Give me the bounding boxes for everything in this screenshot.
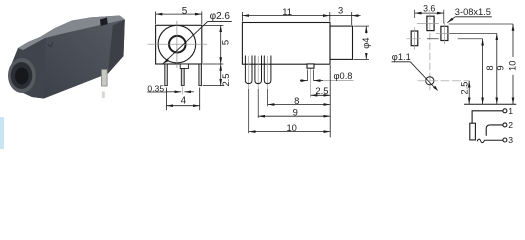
side pin 2 — [255, 56, 262, 84]
side barrel — [330, 26, 353, 59]
dim phi4 line — [365, 26, 367, 59]
pad C — [411, 31, 418, 46]
svg-text:1: 1 — [508, 106, 513, 116]
photo top face band — [18, 16, 125, 51]
svg-text:9: 9 — [293, 107, 298, 118]
dim 4 line — [166, 105, 199, 107]
pad B crosshair — [436, 22, 450, 44]
front pin left — [165, 64, 168, 86]
front pin right — [199, 64, 202, 86]
photo chevron mark — [48, 43, 54, 47]
photo top hole — [100, 18, 108, 27]
svg-text:2.5: 2.5 — [220, 73, 231, 86]
svg-text:10: 10 — [508, 61, 518, 71]
dim 10 vertical — [512, 24, 514, 104]
wire 1 to sleeve — [472, 111, 503, 123]
svg-text:3: 3 — [508, 135, 513, 145]
svg-text:φ4: φ4 — [361, 38, 371, 49]
front right dim extension lines — [203, 25, 224, 85]
photo left end shade — [12, 38, 47, 99]
photo pin — [102, 70, 108, 87]
dim 11 line — [242, 15, 329, 17]
dim 4 extension lines — [166, 88, 199, 111]
svg-text:3.6: 3.6 — [423, 3, 435, 13]
pad A crosshair — [429, 13, 431, 93]
photo barrel hole — [15, 68, 29, 85]
front pin middle stem — [181, 69, 184, 86]
side tab centerline — [310, 69, 312, 98]
label phi1.1 underline and leader — [392, 61, 411, 63]
dim 11 extension lines — [242, 12, 351, 25]
pad B — [441, 26, 448, 40]
leader phi2.6 diagonal — [163, 22, 232, 64]
side pin 3 centerline — [267, 56, 269, 89]
dim 2.5 right vertical — [220, 64, 222, 86]
svg-text:φ0.8: φ0.8 — [334, 71, 353, 81]
label 3-08x1.5 underline and leader — [455, 16, 492, 18]
photo body silhouette / front face — [12, 16, 125, 99]
front hole ring phi2.6 — [169, 36, 186, 53]
front pin middle shoulder — [180, 64, 188, 69]
terminal circle 1 — [503, 109, 507, 113]
pad A — [427, 16, 434, 30]
svg-text:2.5: 2.5 — [460, 82, 470, 95]
wire 2 switch contact — [486, 125, 503, 136]
front pin middle centerline — [182, 87, 184, 95]
dim 5 top line — [156, 13, 202, 15]
side right extension line — [329, 65, 331, 137]
dim 8 vertical — [482, 39, 484, 104]
svg-text:10: 10 — [286, 122, 296, 133]
center hole crosshair — [418, 80, 470, 82]
dim 3 line — [330, 15, 352, 17]
front centerline horizontal — [148, 43, 208, 45]
side pin 3 — [264, 56, 271, 84]
side tab extension lines — [308, 70, 314, 82]
photo: jack connector body — [8, 16, 125, 99]
front square body — [156, 25, 202, 64]
svg-text:φ1.1: φ1.1 — [392, 52, 411, 62]
terminal circle 3 — [503, 138, 507, 142]
front centerline vertical — [176, 21, 178, 68]
dim 2.5 vertical — [468, 81, 470, 104]
center hole circle phi1.1 — [426, 77, 434, 85]
ref line 9 (pad B) — [450, 32, 497, 34]
dim phi0.8 arrows — [300, 80, 307, 82]
svg-text:9: 9 — [495, 65, 505, 70]
side pin 2 centerline — [257, 56, 259, 89]
svg-text:3-08x1.5: 3-08x1.5 — [455, 7, 491, 17]
svg-text:φ2.6: φ2.6 — [210, 11, 231, 22]
blue sidebar strip — [0, 117, 4, 149]
svg-text:5: 5 — [220, 40, 231, 45]
dim 9 side line — [258, 115, 330, 117]
pad C crosshair — [407, 27, 422, 49]
sleeve contact rectangle — [470, 123, 476, 140]
side pin 1 centerline — [248, 56, 250, 89]
terminal circle 2 — [503, 123, 507, 127]
dim phi4 extension lines — [354, 26, 370, 59]
svg-text:8: 8 — [294, 95, 299, 106]
svg-text:2: 2 — [508, 120, 513, 130]
svg-text:3: 3 — [338, 5, 343, 16]
svg-text:11: 11 — [282, 6, 292, 17]
svg-text:4: 4 — [181, 95, 187, 106]
photo barrel outer — [8, 58, 36, 93]
side body — [242, 23, 330, 65]
side pin 1 — [245, 56, 252, 84]
dim 2.5 side line — [311, 94, 331, 96]
dim 9 vertical — [496, 33, 498, 104]
dim 10 side line — [249, 131, 331, 133]
wire 3 tip contact — [477, 139, 503, 143]
side tab pin phi0.8 — [307, 64, 314, 68]
dim 0.35 leader arrows — [147, 91, 166, 93]
front outer circle — [158, 25, 196, 63]
ref line 8 (pad C) — [427, 38, 483, 40]
dim 5 top: extension lines — [156, 12, 202, 25]
svg-text:8: 8 — [485, 65, 495, 70]
photo barrel ring — [11, 62, 33, 89]
dim 3.6 extension lines — [415, 10, 444, 24]
dim 3.6 line — [415, 12, 444, 14]
baseline datum — [464, 103, 516, 105]
photo pin tip below — [102, 92, 105, 99]
svg-text:5: 5 — [182, 6, 188, 17]
side pin extension lines down — [249, 89, 268, 133]
dim 5 right vertical — [220, 25, 222, 64]
photo right end face — [108, 20, 125, 74]
dim 8 side line — [268, 104, 331, 106]
svg-text:2.5: 2.5 — [315, 85, 328, 96]
ref line 10 (pad A) — [449, 23, 513, 25]
